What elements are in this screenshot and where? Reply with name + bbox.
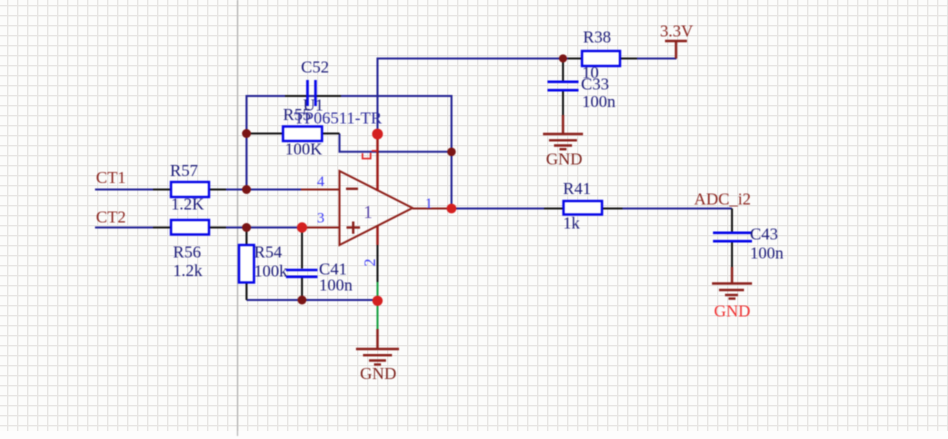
pin C33 top	[562, 59, 564, 81]
svg-text:4: 4	[317, 174, 325, 190]
svg-text:GND: GND	[360, 364, 396, 383]
pin R56 left	[153, 227, 171, 229]
op-amp plus mark horizontal	[347, 226, 361, 228]
resistor R57	[171, 182, 209, 197]
op-amp pin 1 output stub	[413, 208, 452, 210]
junction op-amp output	[447, 204, 457, 214]
pin C41 top	[301, 228, 303, 269]
wire green pin2 to GND	[377, 282, 379, 329]
junction C41 bottom	[298, 296, 307, 305]
op-amp pin 4 stub	[301, 189, 340, 191]
svg-text:CT2: CT2	[96, 208, 126, 227]
op-amp minus mark	[346, 188, 358, 190]
wire R41 to ADC_i2	[623, 208, 733, 210]
capacitor C52 plates	[308, 80, 316, 106]
wire bottom C41 to pin2 node	[247, 299, 378, 301]
junction op-amp pin 5	[372, 129, 383, 140]
svg-text:1: 1	[364, 202, 373, 222]
pin R54 top	[246, 228, 248, 246]
svg-text:3.3V: 3.3V	[660, 22, 693, 41]
svg-text:C43: C43	[750, 225, 778, 244]
wire vertical to op-amp pin 5	[377, 58, 379, 135]
svg-text:C52: C52	[301, 58, 329, 77]
svg-text:GND: GND	[714, 302, 750, 321]
svg-text:1.2k: 1.2k	[173, 261, 203, 280]
pin C33 bottom	[562, 92, 564, 116]
junction op-amp pin 2 node	[372, 296, 382, 306]
pin C43 bottom	[731, 243, 733, 268]
pin op-amp pin 2 upper red segment	[376, 226, 378, 246]
svg-text:1.2K: 1.2K	[171, 195, 204, 214]
wire CT1 left	[95, 189, 153, 191]
resistor R38	[582, 51, 620, 66]
wire left feedback vertical	[246, 95, 248, 190]
resistor R54	[239, 245, 254, 283]
svg-text:R57: R57	[170, 161, 198, 180]
capacitor C43 plates	[713, 233, 752, 241]
power 3.3V symbol	[665, 41, 687, 59]
junction feedback/right vertical	[447, 148, 456, 157]
ground symbol below C33	[543, 115, 583, 149]
svg-text:R41: R41	[563, 179, 591, 198]
sheet border line	[237, 0, 239, 436]
capacitor C41 plates	[286, 270, 318, 277]
pin R57 right	[209, 189, 226, 191]
wire right vertical to output	[451, 95, 453, 209]
wire CT2 left	[95, 227, 153, 229]
wire output to R41	[452, 208, 545, 210]
resistor R56	[171, 220, 209, 235]
pin C52 right	[317, 95, 342, 97]
op-amp pin 5 power stub	[376, 134, 378, 191]
pin R41 right	[602, 208, 623, 210]
ground symbol below op-amp pin 2	[356, 329, 399, 365]
wire top 3.3V rail right segment	[637, 58, 677, 60]
op-amp small red designator mark	[363, 151, 378, 159]
resistor R41	[564, 201, 603, 215]
junction C33 tap	[559, 54, 567, 62]
svg-text:100n: 100n	[750, 244, 784, 263]
junction CT2 / R54	[242, 223, 251, 232]
svg-text:100k: 100k	[254, 262, 288, 281]
pin C41 bottom	[301, 278, 303, 300]
op-amp plus mark vertical	[352, 222, 354, 234]
svg-text:CT1: CT1	[96, 168, 126, 187]
svg-text:2: 2	[362, 259, 379, 267]
pin R54 bottom	[246, 283, 248, 301]
pin R57 left	[153, 189, 171, 191]
capacitor C33 plates	[548, 82, 579, 90]
wire feedback top horizontal	[247, 95, 452, 97]
svg-text:TP06511-TR: TP06511-TR	[294, 109, 383, 128]
svg-text:100n: 100n	[582, 92, 616, 111]
svg-text:R54: R54	[254, 243, 283, 262]
svg-text:100K: 100K	[285, 140, 322, 159]
pin R38 right	[620, 58, 637, 60]
svg-text:100n: 100n	[319, 276, 353, 295]
svg-text:R38: R38	[583, 28, 611, 47]
wire R55 output jog	[340, 134, 452, 152]
svg-text:1: 1	[425, 196, 433, 212]
svg-text:ADC_i2: ADC_i2	[694, 190, 751, 209]
wire CT1 to op-amp	[226, 189, 301, 191]
junction R55 left pin	[242, 129, 251, 138]
pin R41 left	[544, 208, 564, 210]
svg-text:C33: C33	[581, 75, 609, 94]
resistor R55	[283, 127, 322, 142]
op-amp U1 triangle	[340, 171, 413, 245]
junction CT1 / feedback	[242, 185, 251, 194]
wire CT2 to op-amp	[226, 227, 302, 229]
pin op-amp pin 2	[377, 245, 379, 282]
svg-text:1k: 1k	[563, 214, 580, 233]
pin C52 left	[285, 95, 307, 97]
wire top 3.3V rail left segment	[377, 58, 569, 60]
pin R55 right	[322, 133, 340, 135]
pin C43 top	[731, 209, 733, 232]
pin R56 right	[209, 227, 226, 229]
svg-text:R56: R56	[173, 243, 201, 262]
ground symbol below C43	[712, 267, 752, 299]
pin R38 left	[568, 58, 582, 60]
pin R55 left	[247, 133, 283, 135]
op-amp pin 3 stub	[302, 227, 340, 229]
junction op-amp pin 3	[297, 222, 307, 232]
svg-text:GND: GND	[546, 150, 582, 169]
svg-text:3: 3	[317, 211, 325, 227]
